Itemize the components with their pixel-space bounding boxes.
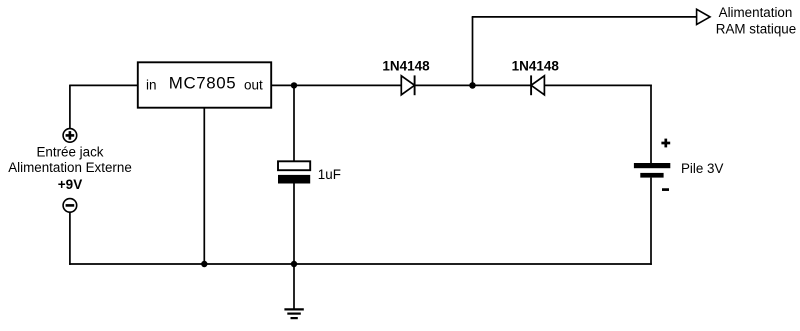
svg-text:1N4148: 1N4148 [512,58,560,73]
node: jack minus terminal (circled -) [63,199,77,213]
node: jack plus terminal (circled +) [63,129,77,143]
wire: regulator output to diode D1 [271,84,401,86]
svg-text:1N4148: 1N4148 [382,58,430,73]
wire: down to capacitor C1 [293,85,295,161]
wire: regulator input to jack (horizontal) [70,84,138,86]
wire: up from common node [472,17,474,86]
svg-text:in: in [146,77,157,92]
ground [284,309,303,318]
junction: regulator ground on rail [201,261,207,267]
battery B1: Pile 3V [634,139,670,190]
junction: capacitor tap on output [291,82,297,88]
wire: D1 cathode to common node [415,84,531,86]
wire: regulator ground pin down to rail [203,108,205,264]
junction: capacitor leg on ground rail [291,261,297,267]
junction: common output node [469,82,476,89]
svg-text:out: out [244,77,263,92]
node: output arrow head [697,9,710,24]
svg-text:Alimentation: Alimentation [719,5,793,20]
wire: bottom ground rail [69,263,652,265]
svg-text:Entrée jack: Entrée jack [37,144,104,159]
wire: D2 anode to battery [544,84,651,86]
capacitor C1: 1uF electrolytic [278,161,310,183]
svg-text:1uF: 1uF [318,167,341,182]
diode D1: 1N4148 pointing right [401,75,414,95]
svg-text:Alimentation Externe: Alimentation Externe [8,160,132,175]
svg-text:+9V: +9V [58,177,82,192]
wire: down to plus terminal of jack [69,85,71,129]
wire: capacitor to ground rail and on to earth [293,184,295,310]
wire: jack minus down to ground rail [69,212,71,265]
wire: battery minus down to ground rail [650,178,652,265]
diode D2: 1N4148 pointing left [531,75,544,95]
svg-text:RAM statique: RAM statique [716,21,796,36]
wire: across top to output arrow [472,16,697,18]
label: Entrée jack / Alimentation Externe / +9V [8,144,132,192]
label: Alimentation RAM statique [716,5,796,36]
svg-text:MC7805: MC7805 [169,74,236,93]
wire: down right side to battery plus [650,85,652,164]
svg-text:Pile 3V: Pile 3V [681,161,723,176]
regulator U1 MC7805 [138,62,271,107]
